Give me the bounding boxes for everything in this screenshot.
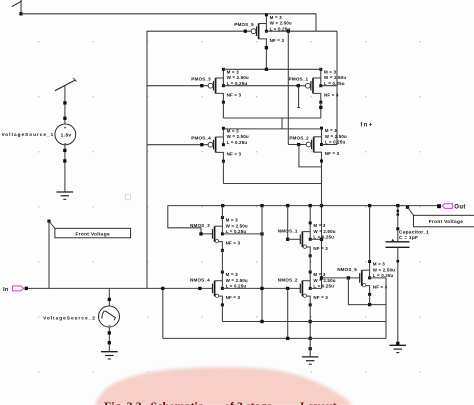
- svg-text:L = 0.25u: L = 0.25u: [226, 284, 247, 289]
- svg-text:W = 2.50u: W = 2.50u: [227, 75, 249, 80]
- svg-text:L = 0.25u: L = 0.25u: [325, 140, 346, 145]
- svg-text:PMOS_5: PMOS_5: [234, 22, 254, 27]
- svg-text:L = 0.25u: L = 0.25u: [226, 229, 247, 234]
- svg-text:W = 2.50u: W = 2.50u: [313, 229, 335, 234]
- svg-text:M = 3: M = 3: [313, 223, 325, 228]
- wire NMOS_2 source down to ground: [309, 305, 312, 350]
- transistor PMOS_2: [289, 127, 347, 163]
- svg-text:Front Voltage: Front Voltage: [75, 231, 109, 237]
- svg-text:+: +: [64, 126, 67, 131]
- wire node between PMOS_5 drain and top PMOS pair sources: [223, 68, 320, 71]
- wire PMOS_3 drain down: [222, 102, 224, 118]
- net label In+: [361, 122, 374, 129]
- svg-text:L = 0.25u: L = 0.25u: [373, 273, 394, 278]
- wire PMOS_3 gate from rail: [147, 84, 208, 87]
- capacitor Capacitor_1 value C = 1pF: [386, 229, 430, 247]
- label box Front Voltage (left) with leader: [47, 220, 130, 238]
- wire intermediate drain bus y118: [223, 117, 320, 119]
- ground right below capacitor: [390, 345, 407, 352]
- wire vertical x288 from nwell row to PMOS_2 gate: [287, 31, 289, 144]
- transistor NMOS_3: [190, 216, 248, 252]
- wire NMOS_4 source to source bus: [221, 305, 223, 322]
- capacitor C1 top wire from output bus: [391, 206, 399, 242]
- svg-text:Capacitor_1: Capacitor_1: [399, 229, 429, 235]
- wire ground bus y338.4: [163, 337, 386, 340]
- wire NMOS_1 bulk row: [310, 238, 321, 240]
- svg-text:L = 0.25u: L = 0.25u: [324, 81, 345, 86]
- wire PMOS_3 bulk row / PMOS_1 gate net: [223, 84, 305, 87]
- svg-text:NF = 3: NF = 3: [270, 38, 285, 43]
- wire VoltageSource_1 top: [63, 85, 66, 124]
- wire PMOS_5 drain down: [265, 46, 268, 69]
- wire NMOS_5 source down: [369, 294, 371, 304]
- svg-text:In: In: [3, 287, 9, 293]
- wire PMOS_4 gate from rail: [147, 143, 208, 146]
- wire In row drop to ground bus: [162, 288, 164, 338]
- pin In (input pin): [3, 286, 28, 293]
- wire PMOS_2 drain down to bus: [321, 161, 323, 184]
- wire NMOS_5 bulk row: [370, 277, 386, 279]
- wire PMOS_2 gate-drain loop: [299, 145, 322, 167]
- svg-text:NF = 3: NF = 3: [226, 241, 241, 246]
- svg-text:PMOS_4: PMOS_4: [191, 136, 211, 141]
- caption Fig. 3.3 (clipped at bottom): [104, 399, 337, 405]
- svg-text:W = 2.50u: W = 2.50u: [373, 267, 395, 272]
- wire PMOS_1 drain down: [319, 102, 322, 118]
- svg-text:L = 0.25u: L = 0.25u: [313, 284, 334, 289]
- svg-text:W = 2.50u: W = 2.50u: [270, 21, 292, 26]
- wire In input row y288.4: [27, 287, 213, 290]
- svg-text:M = 3: M = 3: [324, 69, 336, 74]
- capacitor C1 bottom wire to ground: [396, 247, 399, 345]
- wire vertical x386 to ground bus: [385, 278, 387, 339]
- svg-text:W = 2.50u: W = 2.50u: [324, 75, 346, 80]
- svg-text:C = 1pF: C = 1pF: [399, 235, 418, 241]
- transistor NMOS_5: [337, 260, 395, 296]
- ground center below NMOS sources: [302, 338, 319, 364]
- svg-text:NF = 3: NF = 3: [226, 295, 241, 300]
- vdd rail symbol above VoltageSource_1: [55, 78, 77, 91]
- svg-text:M = 3: M = 3: [226, 218, 238, 223]
- svg-text:NMOS_5: NMOS_5: [337, 267, 357, 272]
- svg-text:NF = 3: NF = 3: [227, 92, 242, 97]
- watermark pink blob: [94, 367, 352, 405]
- svg-text:NF = 3: NF = 3: [325, 151, 340, 156]
- wire PMOS_1 bulk to nwell rail: [321, 85, 337, 87]
- svg-text:PMOS_2: PMOS_2: [289, 135, 309, 140]
- svg-text:NMOS_4: NMOS_4: [190, 277, 210, 282]
- pin Out (output pin): [437, 204, 466, 211]
- wire stub connecting drain bus to lower pair source row: [281, 118, 283, 129]
- wire nwell rail vertical x337: [336, 31, 338, 144]
- wire NMOS_1 gate from output bus: [286, 206, 300, 241]
- svg-text:M = 3: M = 3: [325, 128, 337, 133]
- svg-text:NMOS_2: NMOS_2: [278, 277, 298, 282]
- svg-text:NMOS_3: NMOS_3: [190, 223, 210, 228]
- svg-text:NF = 3: NF = 3: [227, 151, 242, 156]
- svg-text:of 3 stage: of 3 stage: [224, 399, 273, 405]
- svg-text:M = 3: M = 3: [270, 15, 282, 20]
- transistor PMOS_4: [191, 127, 249, 163]
- svg-text:Out: Out: [454, 205, 466, 211]
- background grid dots: [38, 41, 474, 373]
- svg-text:Schematic: Schematic: [151, 399, 204, 405]
- wire NMOS_3 drain up to output bus: [221, 206, 223, 218]
- wire VDD top rail: [21, 14, 316, 31]
- svg-text:VoltageSource_2: VoltageSource_2: [43, 315, 96, 320]
- wire NMOS_5 drain up to output bus: [369, 206, 371, 262]
- svg-text:NF = 3: NF = 3: [313, 295, 328, 300]
- wire PMOS_2 bulk to nwell rail: [322, 144, 338, 146]
- svg-text:PMOS_1: PMOS_1: [289, 77, 309, 82]
- transistor PMOS_1: [289, 68, 347, 104]
- svg-text:NF = 3: NF = 3: [373, 285, 388, 290]
- wire NMOS_3 bulk row: [222, 232, 263, 235]
- wire NMOS_2 gate down to ground bus: [287, 288, 289, 338]
- wire vertical x321 bus-to-nmos column: [320, 184, 323, 289]
- svg-text:NF = 3: NF = 3: [324, 92, 339, 97]
- wire PMOS_1 gate stub (dead end): [297, 86, 300, 108]
- vdd power symbol (clipped, top-left): [12, 0, 23, 15]
- transistor NMOS_1: [278, 221, 336, 257]
- label box Front Voltage (right) with leader: [408, 207, 474, 227]
- svg-text:M = 3: M = 3: [227, 69, 239, 74]
- svg-text:M = 3: M = 3: [226, 272, 238, 277]
- decor faint square artifact: [125, 194, 130, 200]
- transistor PMOS_3: [191, 68, 249, 104]
- svg-text:M = 3: M = 3: [313, 272, 325, 277]
- wire PMOS_4 drain down to bus: [222, 161, 224, 183]
- svg-text:L = 0.25u: L = 0.25u: [313, 234, 334, 239]
- svg-text:W = 2.50u: W = 2.50u: [313, 278, 335, 283]
- svg-text:VoltageSource_1: VoltageSource_1: [2, 132, 55, 137]
- svg-text:L = 0.25u: L = 0.25u: [227, 140, 248, 145]
- voltage source VoltageSource_2 (sine): [43, 288, 119, 351]
- ground below VoltageSource_1: [57, 145, 74, 200]
- wire PMOS_2 gate entry: [288, 143, 306, 146]
- wire source bus y321.5: [222, 320, 386, 323]
- wire PMOS_5 bulk row to nwell rail: [266, 30, 337, 33]
- svg-text:W = 2.50u: W = 2.50u: [325, 134, 347, 139]
- wire PMOS_5 gate from left rail: [147, 30, 251, 33]
- wire left gate rail x147: [146, 31, 148, 289]
- wire lower PMOS pair source row y128.9: [223, 128, 321, 130]
- transistor NMOS_2: [278, 271, 336, 307]
- wire vertical x262: [261, 206, 263, 322]
- wire NMOS_2 bulk row: [310, 287, 321, 289]
- wire output bus y205.6: [168, 204, 437, 209]
- wire NMOS_1 drain up to output bus: [309, 206, 311, 223]
- wire NMOS_3 gate link from output bus: [168, 206, 213, 236]
- svg-text:W = 2.50u: W = 2.50u: [226, 278, 248, 283]
- wire NMOS_5 gate from x321 column: [322, 276, 360, 279]
- svg-text:Fig. 3.3: Fig. 3.3: [104, 399, 142, 405]
- wire NMOS_1 source to NMOS_2 drain: [309, 256, 311, 272]
- wire NMOS_5 gate-source loop: [348, 278, 386, 306]
- svg-text:NF = 3: NF = 3: [313, 246, 328, 251]
- svg-text:−: −: [64, 141, 67, 146]
- wire from Front Voltage node to In row: [48, 221, 50, 288]
- svg-text:M = 3: M = 3: [373, 262, 385, 267]
- svg-text:W = 2.50u: W = 2.50u: [227, 134, 249, 139]
- transistor PMOS_5: [234, 13, 292, 49]
- svg-text:In+: In+: [361, 122, 374, 129]
- svg-text:1.8v: 1.8v: [61, 132, 72, 138]
- voltage source VoltageSource_1 1.8v: [2, 124, 76, 146]
- svg-text:L = 0.25u: L = 0.25u: [227, 81, 248, 86]
- wire NMOS_3 source to NMOS_4 drain: [221, 250, 223, 272]
- svg-text:W = 2.50u: W = 2.50u: [226, 223, 248, 228]
- svg-text:Layout: Layout: [300, 399, 337, 405]
- wire lower PMOS drain bus y183.5: [223, 183, 321, 185]
- wire NMOS_4 / NMOS_2 gate row y288.4: [222, 287, 300, 290]
- transistor NMOS_4: [190, 271, 248, 307]
- svg-text:Front Voltage: Front Voltage: [429, 219, 463, 225]
- ground below VoltageSource_2: [101, 352, 118, 359]
- svg-text:PMOS_3: PMOS_3: [191, 77, 211, 82]
